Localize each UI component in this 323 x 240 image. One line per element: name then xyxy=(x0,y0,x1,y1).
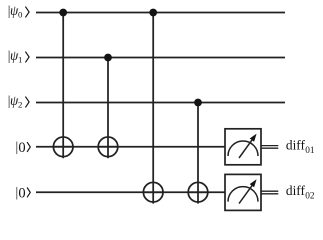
CNOT 1 target on q3 xyxy=(53,137,73,157)
CNOT 4 control dot on q2 xyxy=(194,99,202,107)
svg-text:0: 0 xyxy=(18,186,25,202)
wire q4 xyxy=(36,191,226,193)
CNOT 1 control dot on q0 xyxy=(59,9,67,17)
classical double wire from M1 xyxy=(261,146,278,149)
svg-text:|ψ2: |ψ2 xyxy=(8,93,23,109)
CNOT 2 target on q3 xyxy=(98,137,118,157)
qubit label |psi0> xyxy=(8,3,29,19)
qubit label |psi1> xyxy=(8,48,29,64)
qubit label |0> on q3 xyxy=(16,139,31,156)
CNOT 2 vertical wire xyxy=(107,58,109,159)
svg-text:|ψ0: |ψ0 xyxy=(8,3,23,19)
wire q0 xyxy=(36,12,285,14)
CNOT 3 vertical wire xyxy=(152,13,154,204)
CNOT 2 control dot on q1 xyxy=(104,54,112,62)
CNOT 3 control dot on q0 xyxy=(149,9,157,17)
CNOT 3 target on q4 xyxy=(143,182,163,202)
CNOT 1 vertical wire xyxy=(62,13,64,159)
wire q3 xyxy=(36,146,226,148)
CNOT 4 target on q4 xyxy=(188,182,208,202)
wire q2 xyxy=(36,102,285,104)
svg-text:|ψ1: |ψ1 xyxy=(8,48,23,64)
measurement meter M1 on q3 xyxy=(225,129,261,165)
svg-text:diff01: diff01 xyxy=(286,137,315,156)
qubit label |0> on q4 xyxy=(16,185,31,202)
wire q1 xyxy=(36,57,285,59)
measurement meter M2 on q4 xyxy=(225,174,261,210)
svg-text:diff02: diff02 xyxy=(286,183,315,202)
classical double wire from M2 xyxy=(261,191,278,194)
svg-text:0: 0 xyxy=(18,140,25,156)
qubit label |psi2> xyxy=(8,93,29,109)
CNOT 4 vertical wire xyxy=(197,103,199,204)
